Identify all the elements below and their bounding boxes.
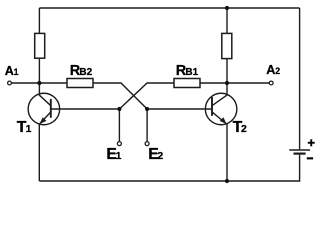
svg-text:2: 2 xyxy=(241,124,247,135)
svg-text:A: A xyxy=(266,63,275,77)
svg-text:A: A xyxy=(5,64,14,78)
svg-text:B1: B1 xyxy=(185,67,198,78)
svg-text:1: 1 xyxy=(116,151,122,162)
svg-text:1: 1 xyxy=(26,124,32,135)
svg-text:1: 1 xyxy=(14,67,19,77)
svg-text:2: 2 xyxy=(157,151,163,162)
svg-text:B2: B2 xyxy=(79,67,92,78)
svg-text:2: 2 xyxy=(275,66,280,76)
